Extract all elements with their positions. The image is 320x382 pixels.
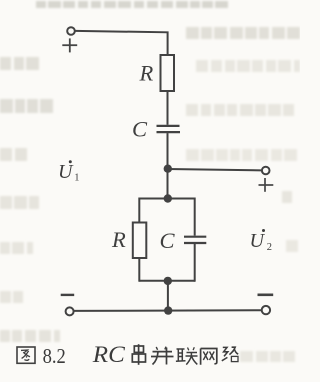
hanzi 网: [201, 349, 217, 365]
parallel top wire: [139, 198, 195, 200]
svg-text:8.2: 8.2: [43, 344, 66, 368]
minus sign input: [61, 294, 74, 296]
node bottom of parallel: [164, 277, 172, 285]
hanzi 并: [151, 347, 174, 365]
parallel left branch upper wire: [138, 198, 140, 223]
node top of parallel: [164, 194, 172, 202]
hanzi 联: [176, 347, 198, 364]
svg-text:RC: RC: [92, 342, 126, 367]
capacitor C series: [157, 126, 181, 132]
node mid junction: [164, 165, 172, 173]
parallel bottom wire: [139, 280, 195, 282]
svg-text:2: 2: [267, 242, 272, 253]
plus sign input: [62, 38, 77, 52]
svg-text:R: R: [111, 227, 126, 252]
terminal bottom-left: [66, 307, 74, 315]
hanzi 串: [132, 344, 145, 365]
svg-text:U: U: [58, 161, 74, 183]
label U2 phasor: [250, 229, 273, 253]
minus sign output: [258, 293, 274, 296]
resistor R series: [161, 55, 175, 91]
svg-text:1: 1: [74, 173, 79, 184]
svg-text:C: C: [160, 228, 176, 253]
terminal top-right: [262, 167, 270, 175]
terminal bottom-right: [262, 306, 270, 314]
node bottom rail junction: [164, 306, 172, 314]
hanzi 络: [222, 347, 238, 361]
parallel right branch upper wire: [194, 198, 196, 236]
parallel left branch lower wire: [138, 258, 140, 282]
svg-text:U: U: [250, 230, 266, 252]
capacitor C parallel: [184, 237, 206, 243]
svg-text:R: R: [139, 60, 154, 85]
bottom rail wire: [74, 309, 262, 312]
wire parallel to bottom rail: [167, 281, 169, 310]
plus sign output: [259, 178, 274, 192]
wire R to C: [167, 91, 169, 125]
resistor R parallel: [133, 223, 147, 259]
wire top: [75, 31, 168, 55]
terminal top-left: [67, 27, 75, 35]
hanzi 图: [17, 347, 35, 363]
svg-text:C: C: [132, 117, 148, 142]
parallel right branch lower wire: [194, 244, 196, 282]
wire node to right terminal: [168, 169, 262, 170]
label U1 phasor: [58, 160, 79, 183]
wire C down to mid node: [167, 133, 169, 198]
caption: 图 8.2 RC 串并联网络: [17, 342, 238, 368]
